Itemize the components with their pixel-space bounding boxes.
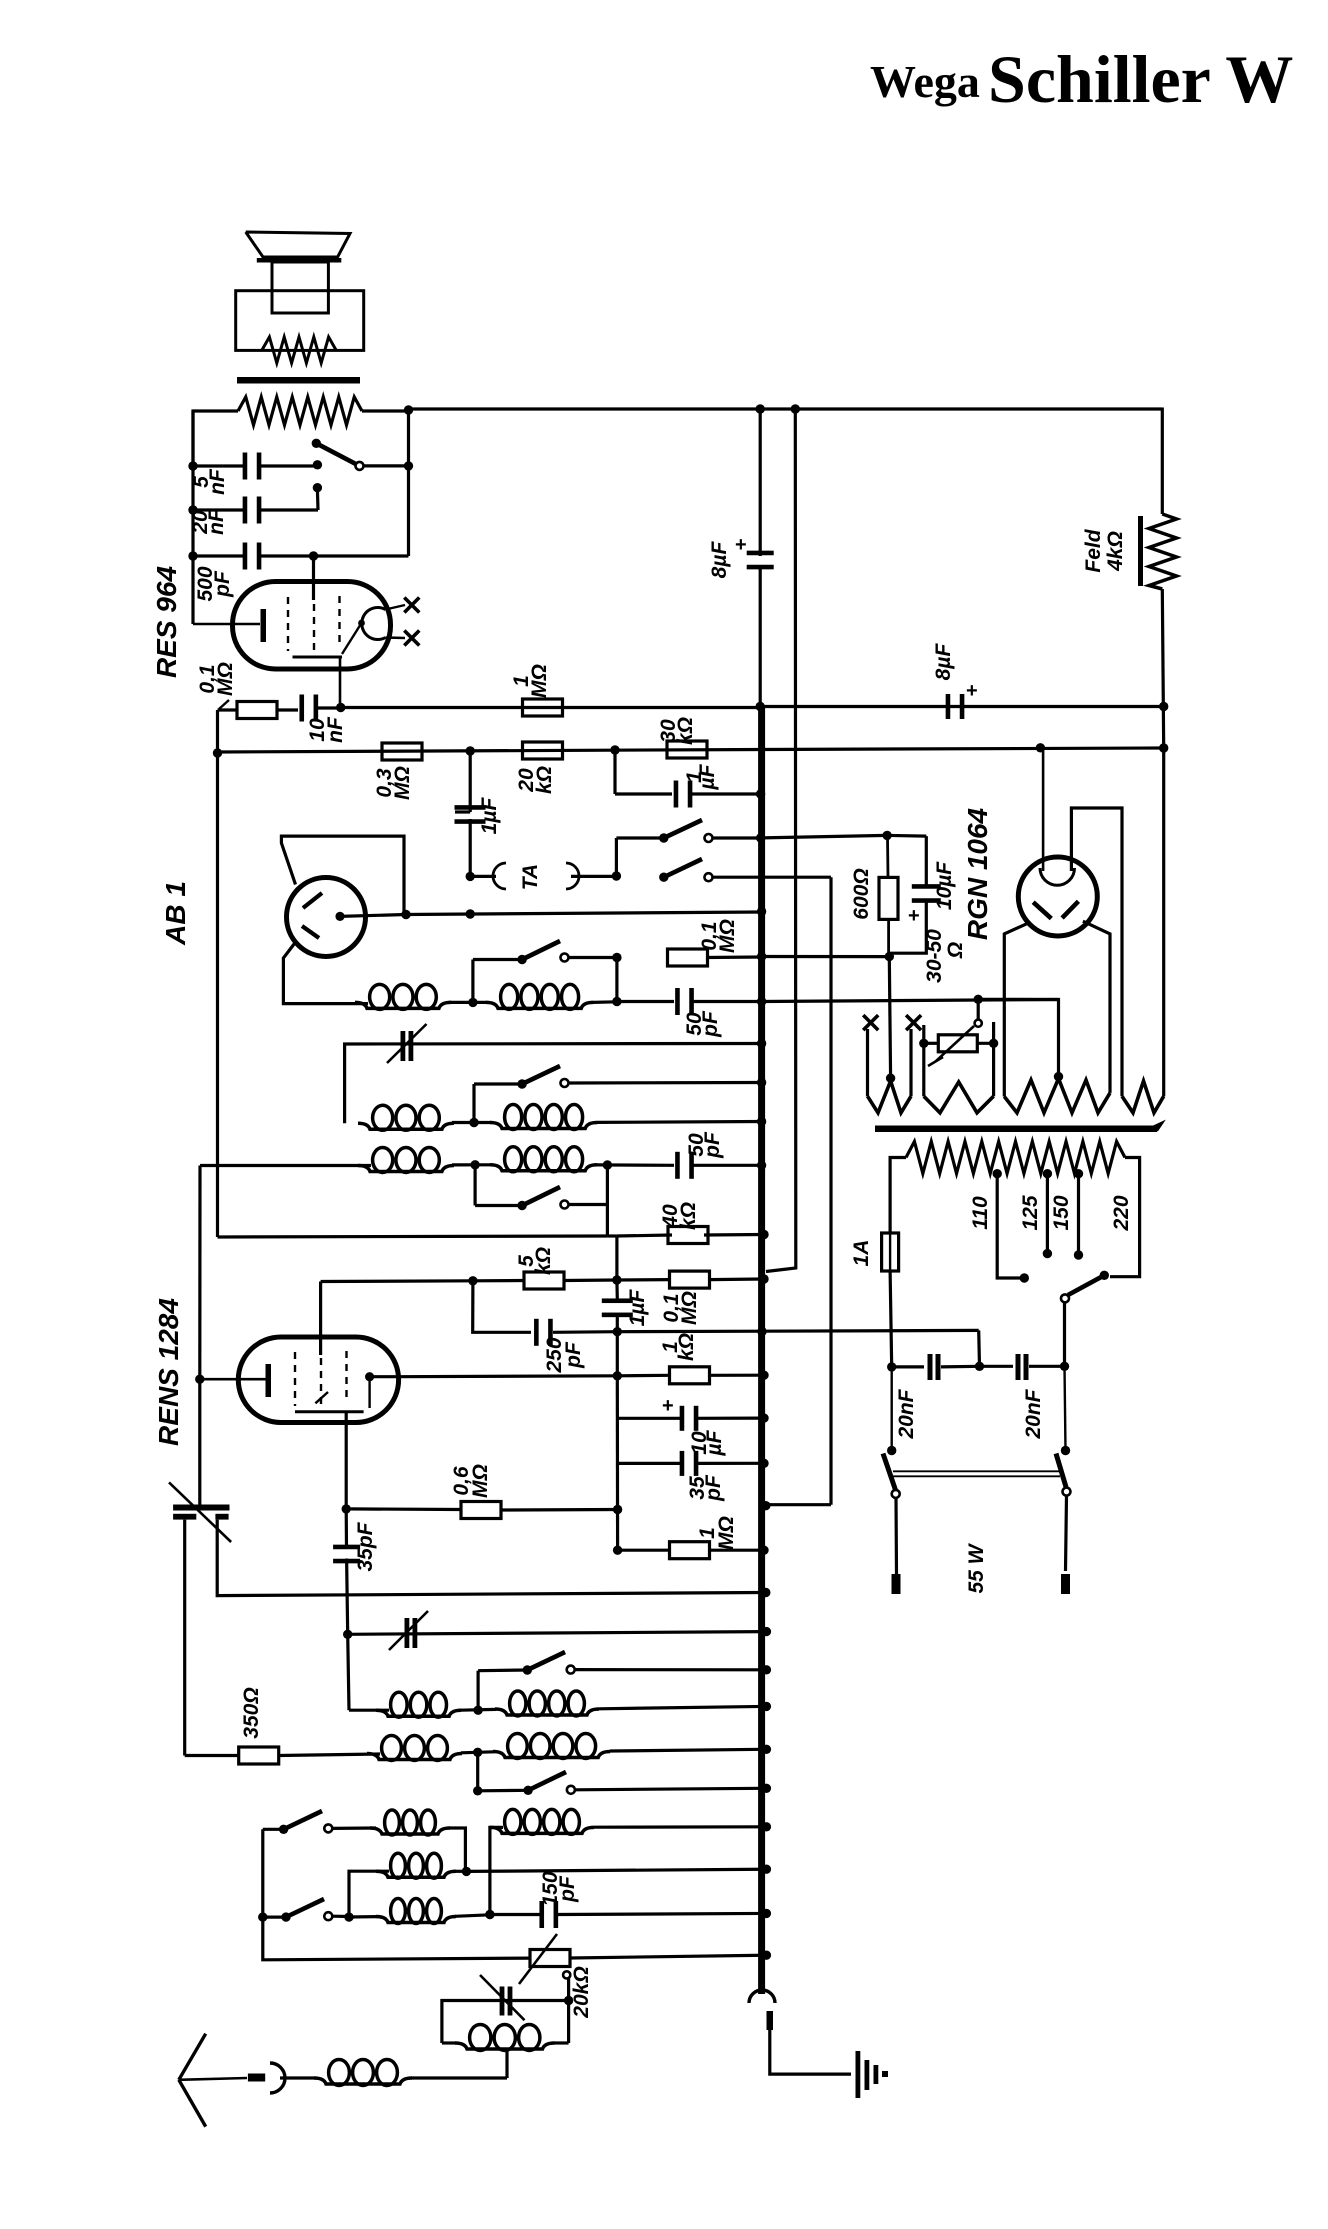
tube RENS1284 suppressor link — [315, 1392, 328, 1403]
junction W1 center tap — [886, 1074, 895, 1083]
junction gang row bus — [761, 1588, 770, 1597]
svg-text:35pF: 35pF — [354, 1521, 377, 1571]
svg-text:1µF: 1µF — [626, 1289, 649, 1327]
wire antenna to coil — [280, 2076, 315, 2079]
fuse 1A — [882, 1233, 899, 1271]
junction B top — [791, 404, 800, 413]
coil IF1b — [486, 1002, 593, 1008]
svg-text:MΩ: MΩ — [469, 1464, 492, 1498]
resistor 0,6 MOhm — [346, 1507, 460, 1511]
jack antenna socket — [270, 2063, 285, 2093]
wire coil A right — [449, 1828, 465, 1872]
coil ANT B — [376, 1871, 456, 1877]
wire osc sw2 L — [476, 1752, 479, 1791]
switch osc S6 blade — [523, 1786, 532, 1795]
svg-text:MΩ: MΩ — [716, 919, 739, 953]
junction 0,6M x617 — [613, 1505, 622, 1514]
bus main ground mid — [759, 565, 762, 707]
capacitor 1uF decoupling — [674, 781, 679, 808]
wire fuse down — [890, 1271, 892, 1367]
resistor hum-bucking in speaker box — [262, 337, 336, 363]
pot wiper — [563, 1971, 570, 1978]
heater terminal x3 — [863, 1015, 878, 1030]
resistor 1 MOhm grid — [618, 1549, 669, 1552]
wire 350R left — [185, 1754, 238, 1757]
tube RENS1284 grids dashed — [294, 1352, 296, 1406]
svg-text:kΩ: kΩ — [677, 1202, 700, 1230]
svg-text:1µF: 1µF — [478, 797, 501, 835]
transformer winding W2 — [922, 1025, 925, 1096]
junction osc trimmer bus — [762, 1627, 771, 1636]
wire pot row left — [263, 1917, 531, 1960]
switch tone S1 blade — [316, 443, 359, 466]
antenna symbol — [179, 2034, 206, 2080]
variable capacitor osc section — [401, 1031, 406, 1061]
wire varcap row — [345, 1044, 762, 1124]
transformer winding W4 — [1122, 1081, 1164, 1113]
capacitor 10nF — [299, 695, 304, 722]
tube RGN1064 filament — [1033, 902, 1051, 918]
junction 1k bus — [759, 1371, 768, 1380]
svg-text:MΩ: MΩ — [678, 1291, 701, 1325]
junction switch right — [404, 461, 413, 470]
wire rheo left — [924, 1042, 938, 1045]
tube RES964 suppressor link — [342, 623, 362, 654]
svg-text:MΩ: MΩ — [214, 662, 237, 696]
wire osc coil left — [348, 1634, 349, 1710]
junction 20nF — [188, 505, 197, 514]
tube RES964 filament loop — [362, 608, 386, 640]
junction row4 bus — [757, 952, 766, 961]
wire wavetrap top — [442, 2001, 569, 2044]
wire AB1 row — [406, 912, 762, 915]
coil wavetrap — [442, 2041, 456, 2044]
wire row4 left L — [471, 960, 474, 1003]
wire row B left — [349, 1871, 389, 1917]
svg-text:MΩ: MΩ — [391, 766, 414, 800]
capacitor 35pF screen — [345, 1509, 348, 1548]
wire IF3 left — [200, 1164, 371, 1167]
coil ANT A — [370, 1828, 450, 1834]
capacitor 20nF mains2 — [980, 1365, 1014, 1368]
junction varcap bus — [757, 1039, 766, 1048]
junction IF1 bus — [757, 997, 766, 1006]
capacitor 5nF — [193, 464, 243, 467]
junction IF3 bus — [757, 1161, 766, 1170]
junction 600R top — [882, 831, 891, 840]
svg-text:10µF: 10µF — [933, 861, 956, 910]
svg-text:nF: nF — [324, 716, 347, 743]
junction TA line bus — [761, 1501, 770, 1510]
wire antenna coil right — [411, 2076, 414, 2079]
switch mains selector blade — [1100, 1271, 1109, 1280]
junction row6 bus — [759, 1274, 768, 1283]
coil ANT C — [349, 1915, 377, 1919]
speaker field/hum coil box — [236, 291, 364, 351]
wire 600R bottom to tap — [889, 957, 890, 1079]
rheostat 30-50 Ohm — [977, 999, 980, 1019]
junction row4 mid — [612, 953, 621, 962]
switch S radio blade — [659, 833, 668, 842]
wire sw3 L — [472, 1084, 475, 1123]
capacitor 500pF — [193, 554, 243, 557]
svg-text:30-50: 30-50 — [923, 929, 946, 983]
junction anode row x617 — [613, 1371, 622, 1380]
junction 20nF right — [1060, 1362, 1069, 1371]
label 0,3M right junction — [466, 746, 475, 755]
wire 350R right — [610, 1749, 766, 1751]
junction osc sw2 bus — [762, 1784, 771, 1793]
wire left bus speaker caps — [191, 411, 194, 624]
junction osc trimmer left — [343, 1630, 352, 1639]
switch IF S4 blade — [517, 1201, 526, 1210]
junction 350R coil — [473, 1748, 482, 1757]
junction RENS cathode — [195, 1375, 204, 1384]
output transformer core — [237, 377, 360, 384]
transformer winding W1 — [866, 1029, 869, 1096]
junction row C coilD — [455, 1915, 490, 1917]
svg-text:20kΩ: 20kΩ — [570, 1966, 593, 2018]
capacitor 50pF IF3 — [675, 1152, 680, 1179]
wire row4 right — [762, 955, 890, 958]
junction ant common row C — [258, 1912, 267, 1921]
capacitor 8uF right — [946, 694, 951, 719]
plug chassis pin — [767, 2011, 774, 2030]
capacitor 10uF cathode — [617, 1417, 681, 1420]
tube RGN1064 envelope — [1018, 857, 1097, 936]
wire wavetrap tap — [505, 2049, 508, 2078]
svg-text:nF: nF — [206, 468, 229, 495]
coil antenna series — [314, 2078, 412, 2084]
resistor 0,1 MOhm — [218, 708, 238, 711]
tap 110 — [993, 1169, 1002, 1178]
tube RENS1284 cathode — [200, 1378, 266, 1381]
plug mains pin right — [1061, 1574, 1070, 1594]
tube RES964 envelope — [233, 582, 391, 670]
svg-text:pF: pF — [702, 1474, 725, 1502]
svg-text:kΩ: kΩ — [532, 1247, 555, 1275]
coil ANT D left lead — [490, 1827, 503, 1914]
svg-text:55 W: 55 W — [965, 1542, 988, 1593]
svg-text:+: + — [908, 905, 920, 927]
junction row B bus — [762, 1865, 771, 1874]
svg-text:8µF: 8µF — [932, 643, 955, 681]
heater terminal x4 — [906, 1015, 921, 1030]
wire sw4 to IF3 — [606, 1165, 609, 1236]
svg-text:pF: pF — [211, 570, 234, 598]
svg-text:pF: pF — [556, 1875, 579, 1903]
jack chassis socket — [749, 1990, 775, 2003]
svg-text:MΩ: MΩ — [528, 664, 551, 698]
tube RGN1064 anode arc — [1040, 868, 1075, 885]
resistor Feld 4kOhm field coil — [1149, 514, 1177, 589]
switch IF S3 blade — [517, 1079, 526, 1088]
wire wavetrap right — [554, 2041, 569, 2044]
wire primary right — [1110, 1158, 1140, 1277]
junction AB1 row — [401, 910, 410, 919]
switch IF S2 blade — [517, 955, 526, 964]
wire AVC row right — [617, 1330, 978, 1331]
wire row5 bus — [704, 1233, 766, 1237]
jack TA left contact — [493, 863, 506, 889]
heater terminal x1 — [404, 598, 419, 613]
wire RENS grid vertical — [319, 1282, 322, 1356]
switch osc S5 blade — [523, 1665, 532, 1674]
plug mains pin left — [892, 1574, 901, 1594]
junction 1uF bus — [756, 789, 765, 798]
wire speaker winding right to rail — [362, 409, 409, 412]
coil ANT D — [490, 1827, 594, 1833]
wire row5 — [218, 1236, 608, 1237]
junction row C coilB — [344, 1912, 353, 1921]
junction row4 600R — [885, 952, 894, 961]
transformer core — [875, 1126, 1157, 1133]
wire vert x617 — [616, 1332, 619, 1376]
ground symbol — [856, 2051, 861, 2098]
capacitor 20nF — [193, 508, 243, 511]
potentiometer 20 kOhm — [530, 1950, 570, 1967]
tube RES964 cathode — [193, 623, 260, 626]
svg-text:RES 964: RES 964 — [151, 566, 182, 678]
junction TA left — [466, 872, 475, 881]
wire 250pF L — [473, 1281, 531, 1333]
variable capacitor tuning gang — [173, 1505, 229, 1511]
junction 1M row x617 — [613, 1546, 622, 1555]
wire row4 to bus — [706, 955, 762, 959]
wire right vertical speaker section — [407, 409, 410, 556]
wire rheo right — [978, 1042, 994, 1045]
capacitor wavetrap trimmer — [500, 1987, 505, 2016]
capacitor 20nF mains1 — [892, 1365, 924, 1368]
resistor 5 kOhm — [473, 1279, 524, 1283]
junction rail2 left — [213, 748, 222, 757]
wire TA right — [571, 875, 616, 878]
junction row6 left — [468, 1276, 477, 1285]
junction osc coil — [473, 1706, 482, 1715]
svg-text:Schiller W: Schiller W — [988, 41, 1293, 117]
wire speaker winding left — [193, 411, 238, 466]
coil IF2b — [490, 1123, 597, 1129]
svg-text:20nF: 20nF — [895, 1388, 918, 1439]
wire gang right down — [217, 1520, 766, 1596]
junction bus top — [756, 404, 765, 413]
junction IF1 — [468, 998, 477, 1007]
junction 5nF — [188, 461, 197, 470]
junction 350R bus — [762, 1745, 771, 1754]
junction 250pF row x617 — [613, 1327, 622, 1336]
svg-text:150: 150 — [1050, 1195, 1073, 1230]
svg-text:1A: 1A — [850, 1240, 873, 1267]
svg-text:Wega: Wega — [870, 56, 980, 107]
wire IF2 right — [452, 1121, 491, 1124]
output transformer primary winding — [238, 397, 362, 425]
svg-text:125: 125 — [1019, 1195, 1042, 1230]
resistor 40 kOhm — [668, 1227, 708, 1244]
field coil core bar — [1138, 516, 1143, 586]
svg-text:RGN 1064: RGN 1064 — [962, 807, 993, 940]
junction AVC bus — [757, 1327, 766, 1336]
svg-text:kΩ: kΩ — [533, 766, 556, 794]
coil OSC1a — [376, 1710, 461, 1716]
tube AB1 diode anode 1 — [303, 893, 322, 908]
junction row6 mid — [612, 1275, 621, 1284]
bus main ground — [758, 707, 765, 1995]
speaker voice coil — [272, 262, 328, 313]
wire right vertical lower — [1162, 748, 1165, 1096]
junction 1M bus — [759, 1546, 768, 1555]
wire ant common — [263, 1828, 284, 1831]
junction row5 bus — [759, 1230, 768, 1239]
bus main ground upper — [759, 409, 762, 556]
switch ant S8 blade — [263, 1915, 286, 1918]
capacitor 35pF bus — [618, 1462, 682, 1465]
junction IF3 left — [470, 1160, 479, 1169]
junction rheo row — [974, 995, 983, 1004]
wire TA switch to AVC line — [829, 877, 832, 1504]
wire RES964 heater leads — [386, 605, 406, 610]
svg-text:pF: pF — [699, 1010, 722, 1038]
junction 10uF bus — [759, 1413, 768, 1422]
wire IF3 right — [452, 1163, 491, 1166]
wire TA left — [470, 875, 496, 878]
wire chassis to ground — [770, 2030, 851, 2074]
capacitor 50pF IF1 — [675, 988, 680, 1015]
svg-text:8µF: 8µF — [708, 541, 731, 579]
svg-text:110: 110 — [969, 1196, 992, 1230]
resistor 20 kOhm — [523, 742, 563, 759]
resistor 0,3 MOhm — [382, 743, 422, 760]
tube AB1 envelope — [287, 878, 366, 957]
junction osc sw1 bus — [762, 1665, 771, 1674]
junction rail2 right — [1159, 743, 1168, 752]
junction sw3 bus — [757, 1078, 766, 1087]
capacitor 250pF — [534, 1319, 539, 1346]
junction rail2 RGN anode — [1036, 743, 1045, 752]
wire row B right — [466, 1869, 766, 1871]
svg-text:Ω: Ω — [944, 942, 967, 959]
wire osc trimmer row — [348, 1632, 767, 1635]
coil IF1a — [355, 1002, 451, 1008]
junction 35pF bus — [759, 1459, 768, 1468]
transformer winding W3 — [1004, 1079, 1110, 1113]
junction 20k right — [610, 745, 619, 754]
junction wiper — [564, 1996, 573, 2005]
svg-text:+: + — [966, 680, 978, 702]
switch S TA blade — [659, 873, 668, 882]
junction IF2 bus — [757, 1117, 766, 1126]
wire rail1 — [341, 706, 761, 709]
junction speaker right — [404, 405, 413, 414]
wire rail1 right — [760, 705, 1163, 708]
wire RENS cathode down — [198, 1379, 201, 1506]
tube AB1 cathode lead — [335, 912, 344, 921]
tube RENS1284 envelope — [238, 1337, 398, 1423]
tap 150 — [1074, 1169, 1083, 1178]
svg-text:nF: nF — [205, 508, 228, 535]
capacitor 150pF — [539, 1901, 544, 1928]
svg-text:AB 1: AB 1 — [160, 881, 191, 946]
tube AB1 diode anode 2 — [302, 926, 319, 938]
capacitor 1uF coupling — [455, 805, 486, 810]
wire AB1 anode1 loop — [281, 836, 404, 914]
resistor 1 MOhm — [523, 699, 563, 716]
resistor 1 kOhm — [617, 1374, 669, 1378]
svg-text:Feld: Feld — [1082, 528, 1105, 572]
switch mains link — [893, 1470, 1060, 1472]
variable capacitor osc trimmer — [405, 1618, 410, 1648]
capacitor 10uF bias — [887, 834, 926, 838]
wire 0,3M junction down — [469, 751, 472, 812]
plug antenna pin — [248, 2074, 265, 2082]
junction 150pF bus — [762, 1909, 771, 1918]
wire mains lead left — [894, 1498, 898, 1575]
wire row C to 150pF — [490, 1913, 541, 1916]
wire osc sw1 L — [477, 1671, 480, 1711]
svg-text:MΩ: MΩ — [715, 1516, 738, 1550]
resistor 0,1 MOhm AVC — [668, 949, 708, 966]
wire heater row right — [762, 1000, 1059, 1002]
wire coil D right — [594, 1825, 766, 1829]
wire TA vertical link — [615, 838, 618, 876]
junction screen 35pF — [342, 1504, 351, 1513]
coil IF3a — [358, 1166, 454, 1172]
coil IF3b — [490, 1165, 597, 1171]
junction 20nF mid — [975, 1362, 984, 1371]
junction radio sw bus — [756, 833, 765, 842]
svg-text:600Ω: 600Ω — [850, 868, 873, 919]
wire AVC drop to mains — [977, 1330, 981, 1366]
resistor 30 kOhm — [667, 741, 707, 758]
junction IF2 — [469, 1118, 478, 1127]
wire IF1 cont — [617, 1000, 674, 1003]
resistor 600 Ohm — [879, 877, 898, 919]
wire left vertical 0,1M to row5 — [216, 710, 219, 1237]
svg-text:4kΩ: 4kΩ — [1104, 531, 1127, 572]
junction row B — [455, 1870, 467, 1873]
junction anode RES964 — [336, 703, 345, 712]
wire RENS anode row — [370, 1375, 399, 1378]
wire 600R top row — [762, 835, 888, 838]
wire IF1 to 50pF — [449, 1001, 487, 1004]
svg-text:TA: TA — [519, 864, 542, 890]
switch mains S9b — [1061, 1446, 1070, 1455]
wire row6 left — [321, 1279, 473, 1283]
svg-text:RENS 1284: RENS 1284 — [153, 1298, 184, 1446]
junction W3 center tap — [1054, 1072, 1063, 1081]
svg-text:µF: µF — [696, 763, 719, 790]
capacitor 8uF left — [747, 551, 774, 556]
wire top rail right corner — [1161, 408, 1164, 515]
junction pot bus — [762, 1951, 771, 1960]
speaker LS cone — [246, 232, 350, 257]
wire Feld down — [1162, 589, 1163, 748]
wire row5 drop — [615, 1236, 618, 1280]
svg-text:kΩ: kΩ — [675, 1333, 698, 1361]
svg-text:+: + — [662, 1395, 674, 1417]
wire RENS screen drop — [345, 1412, 348, 1509]
coil IF2a — [358, 1123, 454, 1129]
wire primary left — [890, 1158, 906, 1234]
junction 20nF left — [887, 1362, 896, 1371]
tube RES964 grids dashed — [287, 597, 289, 651]
coil OSC1b — [460, 1708, 496, 1712]
svg-text:kΩ: kΩ — [674, 717, 697, 745]
wire W3 tap to rheostat row — [978, 999, 1058, 1076]
coil OSC2a — [367, 1754, 462, 1760]
coil OSC2b — [461, 1752, 494, 1753]
wire gang left down — [183, 1520, 186, 1756]
wire RGN filament leads — [1004, 922, 1030, 1096]
